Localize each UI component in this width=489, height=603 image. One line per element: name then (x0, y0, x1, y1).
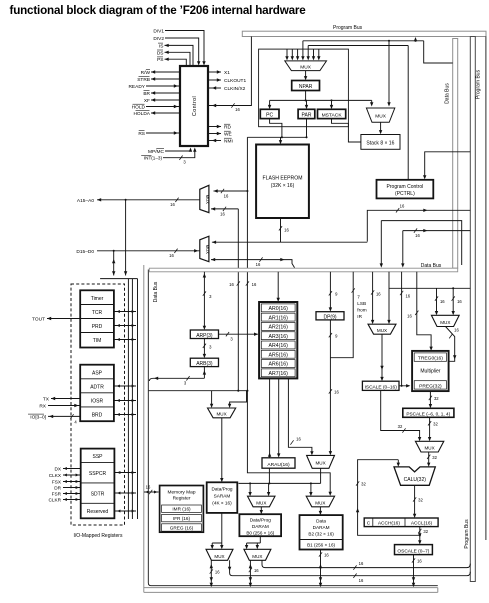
svg-text:ARP(3): ARP(3) (196, 333, 213, 339)
svg-text:R/W: R/W (141, 70, 151, 76)
svg-text:PC: PC (266, 113, 273, 119)
svg-text:XF: XF (144, 98, 150, 104)
svg-text:TREG0(16): TREG0(16) (418, 356, 443, 362)
wire ARP to ARB (3) (203, 339, 205, 356)
svg-text:GREG (16): GREG (16) (170, 526, 194, 531)
svg-text:TIM: TIM (93, 338, 102, 344)
wire program address vertical V2 (247, 191, 330, 493)
svg-text:I/O-Mapped Registers: I/O-Mapped Registers (74, 533, 123, 539)
svg-text:AR7(16): AR7(16) (269, 371, 289, 377)
svg-text:DIV2: DIV2 (153, 36, 164, 42)
mux DARAM B2 mux (306, 496, 334, 507)
svg-text:PREG(32): PREG(32) (419, 383, 442, 389)
pin FSR (63, 493, 81, 495)
svg-text:16: 16 (324, 553, 329, 558)
svg-text:MUX: MUX (216, 411, 226, 416)
wire mux1 inputs from frame (287, 49, 319, 57)
svg-text:16: 16 (146, 484, 151, 489)
svg-text:16: 16 (215, 570, 220, 575)
block ISCALE (0-16) (362, 381, 399, 390)
wire program to data transfer (16) (403, 231, 471, 265)
wire data bus to TREG mux right (388, 272, 390, 321)
register ARP(3) (190, 330, 218, 339)
svg-text:Data/Prog: Data/Prog (211, 487, 232, 492)
pin IS (output) (165, 45, 194, 66)
pin HOLDA (151, 112, 180, 114)
wire data bus to TREG0 (16) (417, 272, 431, 348)
svg-text:16: 16 (359, 561, 364, 566)
pin INT(1-3) (163, 150, 195, 158)
wire ISCALE to CALU mux (32) (381, 390, 420, 438)
svg-text:SSP: SSP (92, 454, 103, 460)
wire data bus to AR file (277, 272, 279, 299)
svg-text:SDTR: SDTR (91, 491, 105, 497)
mux data bus mux (XMIF) (200, 236, 209, 262)
wire Memory Map Register bus (16) (144, 491, 159, 493)
svg-text:CALU(32): CALU(32) (404, 477, 427, 483)
svg-text:AR3(16): AR3(16) (269, 334, 289, 340)
pin READY (146, 85, 180, 87)
memory FLASH EEPROM (256, 145, 309, 219)
pin RD (208, 126, 221, 128)
wire data mux to data bus (211, 260, 295, 268)
alu CALU(32) (394, 467, 435, 485)
bus: Program Bus right vertical bar (470, 37, 475, 582)
svg-text:16: 16 (405, 294, 410, 299)
svg-text:Program Bus: Program Bus (333, 25, 363, 31)
wire MUX2 to stack (380, 122, 382, 131)
wire ARAU output distribution (239, 468, 321, 493)
wire right mux to data bus (16) (249, 560, 251, 586)
register PAR (298, 109, 315, 118)
wire SARAM to output mux (212, 513, 222, 547)
svg-text:32: 32 (433, 422, 438, 427)
svg-text:AR1(16): AR1(16) (269, 315, 289, 321)
pin DX (63, 468, 81, 470)
svg-text:SARAM: SARAM (214, 494, 231, 499)
svg-text:CLKR: CLKR (48, 498, 61, 503)
svg-text:16: 16 (407, 314, 412, 319)
register file AR0-AR7 (259, 302, 297, 378)
wire data bus to DP (9) (329, 272, 331, 309)
svg-text:16: 16 (169, 253, 174, 258)
block SSP registers (81, 449, 115, 519)
svg-text:X1: X1 (224, 70, 230, 76)
svg-text:Memory Map: Memory Map (168, 490, 196, 496)
svg-text:32: 32 (361, 482, 366, 487)
bus: Data Bus horizontal bar (149, 268, 457, 272)
bus: Program Bus horizontal bar (242, 31, 486, 36)
svg-text:PS: PS (157, 57, 163, 63)
wire PAR output to address lines (247, 119, 306, 142)
pin CLKR (63, 499, 81, 501)
svg-text:32: 32 (423, 529, 428, 534)
wire PSCALE to CALU mux (32) (429, 417, 431, 438)
svg-text:16: 16 (224, 193, 229, 198)
wire program bus to PCTRL (425, 152, 471, 177)
svg-text:CLKX: CLKX (49, 473, 62, 478)
svg-text:Data Bus: Data Bus (153, 281, 159, 302)
svg-text:16: 16 (415, 233, 420, 238)
svg-text:MUX: MUX (375, 113, 386, 119)
svg-text:MUX: MUX (256, 500, 266, 505)
frame datapath outer (gray) (144, 265, 438, 592)
svg-text:functional block diagram of th: functional block diagram of the ’F206 in… (10, 4, 307, 17)
wire AR to memory address mux (16) (288, 378, 312, 452)
svg-text:32: 32 (398, 424, 403, 429)
svg-text:Data Bus: Data Bus (421, 263, 442, 269)
svg-text:CLKOUT1: CLKOUT1 (224, 78, 246, 84)
wire address drop to peripherals (125, 200, 127, 276)
block Memory Map Register (160, 486, 204, 533)
wire B0 to output mux (247, 536, 261, 546)
svg-text:RD: RD (224, 125, 231, 131)
wire FLASH data out (280, 218, 282, 242)
wire 7 LSB from IR (330, 272, 353, 358)
wire data bus drop to peripherals (113, 251, 115, 276)
block OSCALE (0-7) (395, 545, 433, 555)
svg-text:FSX: FSX (52, 480, 62, 485)
svg-text:DARAM: DARAM (252, 524, 269, 529)
svg-text:Register: Register (173, 496, 191, 502)
svg-text:Reserved: Reserved (87, 509, 109, 515)
wire PC output (270, 119, 282, 138)
svg-text:16: 16 (359, 578, 364, 583)
svg-text:DS: DS (157, 50, 164, 56)
svg-text:DIV1: DIV1 (153, 29, 164, 35)
svg-text:ACCL(16): ACCL(16) (411, 521, 433, 527)
svg-text:IFR (16): IFR (16) (173, 516, 191, 521)
svg-text:16: 16 (229, 282, 234, 287)
wire address mux output (320, 468, 322, 483)
wire bottom program bus link A (16) (262, 560, 470, 567)
svg-text:B2 (32 × 16): B2 (32 × 16) (308, 531, 334, 536)
svg-text:16: 16 (252, 282, 257, 287)
svg-text:RS: RS (138, 131, 145, 137)
mux MUX2 (stack input mux) (366, 108, 394, 122)
svg-text:32: 32 (418, 498, 423, 503)
svg-text:IOSR: IOSR (91, 398, 104, 404)
svg-text:16: 16 (454, 328, 459, 333)
svg-text:MP/MC: MP/MC (148, 149, 165, 155)
svg-text:D15–D0: D15–D0 (76, 249, 94, 255)
pin MP/MC (165, 150, 191, 151)
svg-text:Stack 8 × 16: Stack 8 × 16 (366, 141, 394, 147)
bus: Data Bus right vertical bar (453, 39, 458, 269)
svg-text:Program Bus: Program Bus (475, 69, 481, 99)
mux MUX1 (program address mux) (285, 61, 327, 71)
wire data bus to TREG mux left (16) (372, 272, 374, 321)
wire TREG mux output (16) (446, 327, 455, 362)
svg-text:MUX: MUX (214, 554, 224, 559)
svg-text:16: 16 (440, 299, 445, 304)
svg-text:ARAU(16): ARAU(16) (267, 462, 290, 468)
outer frame right edge (485, 37, 487, 541)
svg-text:IS: IS (159, 43, 164, 49)
wire ACC feedback to CALU (32) (358, 460, 420, 536)
svg-text:16: 16 (235, 107, 240, 112)
pin DS (output) (165, 52, 191, 66)
svg-text:AR4(16): AR4(16) (269, 343, 289, 349)
wire external bus to datapath vertical V1 (237, 209, 239, 391)
wire CALU to ACC (32) (414, 485, 416, 515)
block ASP registers (80, 365, 114, 422)
svg-text:NMI: NMI (224, 139, 233, 145)
svg-text:Program Bus: Program Bus (464, 519, 470, 549)
mux ARAU input mux (208, 408, 236, 418)
svg-text:LSB: LSB (357, 301, 366, 306)
pin TX (51, 398, 80, 400)
pin DIV2 (165, 38, 199, 62)
svg-text:MUX: MUX (315, 500, 325, 505)
svg-text:AR2(16): AR2(16) (269, 325, 289, 331)
register file Stack 8x16 (361, 135, 400, 150)
svg-text:FSR: FSR (52, 492, 62, 497)
wire mux to B2 (319, 507, 321, 513)
svg-text:16: 16 (417, 559, 422, 564)
svg-text:PRD: PRD (92, 324, 103, 330)
control block (180, 66, 208, 146)
svg-text:Program Control: Program Control (387, 184, 424, 190)
block Program Control (PCTRL) (377, 180, 434, 199)
svg-text:32: 32 (432, 455, 437, 460)
memory Data/Prog DARAM B0 (239, 514, 281, 536)
block Timer registers (80, 290, 114, 347)
frame around program counter section (259, 49, 349, 127)
svg-text:16: 16 (170, 202, 175, 207)
register DP(9) (316, 312, 344, 320)
wire L1 program bus feed (303, 39, 424, 104)
svg-text:16: 16 (400, 204, 405, 209)
svg-text:FLASH EEPROM: FLASH EEPROM (263, 176, 303, 182)
pin DR (63, 487, 81, 489)
frame datapath inner (black) (148, 270, 438, 586)
wire ACC to OSCALE (32) (419, 527, 421, 542)
wire mux to B0 (260, 507, 262, 512)
pin STRB (151, 78, 180, 80)
svg-text:MUX: MUX (205, 245, 210, 255)
register NPAR (292, 81, 320, 91)
wire program bus to data bus drop (424, 41, 453, 63)
wire ASP register taps (114, 385, 136, 387)
svg-text:AR6(16): AR6(16) (269, 362, 289, 368)
svg-text:B0 (256 × 16): B0 (256 × 16) (246, 530, 274, 535)
block PSCALE (403, 408, 454, 417)
svg-text:IMR (16): IMR (16) (172, 507, 191, 512)
svg-text:PAR: PAR (302, 113, 312, 119)
svg-text:(32K × 16): (32K × 16) (271, 183, 295, 189)
mux memory output mux left (206, 549, 233, 560)
wire PREG to PSCALE (32) (429, 391, 431, 405)
svg-text:SSPCR: SSPCR (89, 471, 107, 477)
wire data address to address mux (211, 208, 238, 210)
svg-text:MUX: MUX (205, 195, 210, 205)
wire address line A15-A0 (97, 199, 200, 201)
wire ARB writeback (149, 367, 204, 381)
pin DIV1 (165, 31, 204, 62)
svg-text:Timer: Timer (91, 296, 104, 302)
mux DARAM B0 mux (248, 496, 276, 507)
pin RS (146, 132, 180, 134)
svg-text:C: C (367, 521, 371, 527)
svg-text:16: 16 (220, 211, 225, 216)
svg-text:IO[3–0]: IO[3–0] (30, 414, 46, 420)
svg-text:MSTACK: MSTACK (322, 113, 343, 119)
svg-text:MUX: MUX (315, 460, 325, 465)
pin R/W (151, 71, 180, 73)
mux CALU input mux (415, 441, 443, 452)
svg-text:16: 16 (334, 390, 339, 395)
wire ARAU mux to SARAM (221, 418, 223, 480)
register MSTACK (318, 109, 346, 118)
wire h1 program feed multiplier (389, 288, 470, 312)
svg-text:MUX: MUX (252, 554, 262, 559)
wire MSTACK to Stack (332, 119, 361, 142)
svg-text:MUX: MUX (377, 328, 387, 333)
wire PAR to address mux (214, 137, 248, 191)
wire OSCALE to data bus (16) (413, 555, 415, 587)
wire ARP select to AR file (3) (219, 333, 258, 335)
pin FSX (63, 481, 81, 483)
svg-text:BRD: BRD (92, 412, 103, 418)
svg-text:16: 16 (296, 437, 301, 442)
wire bottom program bus link B (16) (230, 560, 471, 575)
svg-text:MUX: MUX (440, 320, 450, 325)
svg-text:DX: DX (54, 467, 61, 472)
mux address output mux (XMIF) (200, 185, 209, 212)
svg-text:16: 16 (376, 292, 381, 297)
svg-text:WE: WE (224, 132, 232, 138)
svg-text:Control: Control (192, 96, 198, 116)
pin TOUT (47, 318, 80, 320)
wire mux to CALU (32) (428, 452, 430, 464)
svg-text:from: from (357, 308, 366, 313)
svg-text:IR: IR (357, 314, 362, 319)
svg-text:MUX: MUX (300, 64, 311, 70)
svg-text:Data: Data (316, 518, 326, 523)
svg-text:16: 16 (284, 228, 289, 233)
mux data memory address mux (307, 455, 335, 468)
svg-text:TOUT: TOUT (32, 317, 45, 323)
pin BR (151, 92, 180, 94)
wire flash/program data to data mux (212, 241, 367, 243)
wire control to program bus (16) (208, 37, 251, 106)
wire AR to ARAU (278, 378, 280, 454)
svg-text:TCR: TCR (92, 310, 103, 316)
block ARAU(16) (262, 458, 295, 468)
svg-text:HOLD: HOLD (132, 105, 146, 111)
svg-text:B1 (256 × 16): B1 (256 × 16) (307, 542, 335, 547)
pin PS (output) (165, 59, 187, 66)
wire data bus feed drop 1 (380, 221, 382, 265)
memory Data/Prog SARAM (207, 482, 238, 513)
frame I/O-mapped registers (dashed) (71, 284, 125, 525)
pin CLKOUT1 (208, 79, 221, 81)
svg-text:PSCALE (–6, 0, 1, 4): PSCALE (–6, 0, 1, 4) (406, 412, 450, 417)
wire timer register taps (114, 311, 136, 313)
wire data bus to ARP (3) (203, 272, 205, 327)
svg-text:CLKIN/X2: CLKIN/X2 (224, 86, 246, 92)
wire PCTRL/flash to program bus (16) (367, 210, 470, 241)
wire AR to ARAU writeback (269, 378, 271, 457)
svg-text:ISCALE (0–16): ISCALE (0–16) (365, 384, 398, 390)
wire B1/B2 to data bus (16) (320, 550, 322, 587)
wire data-program transfer (upper) (381, 221, 461, 265)
svg-text:HOLDA: HOLDA (133, 111, 150, 117)
pin X1 (208, 71, 221, 73)
svg-text:Data Bus: Data Bus (445, 83, 451, 104)
pin XF (151, 99, 180, 101)
pin CLKIN/X2 (208, 87, 221, 89)
wire SSP register taps (114, 472, 136, 474)
wire mux to ISCALE (381, 334, 383, 378)
svg-text:(4K × 16): (4K × 16) (212, 501, 232, 506)
wire DP+7LSB data address (16) (329, 320, 331, 453)
pin RX (48, 405, 80, 407)
mux TREG source mux (431, 315, 459, 326)
svg-text:ACCH(16): ACCH(16) (378, 521, 401, 527)
svg-text:Multiplier: Multiplier (420, 369, 440, 375)
svg-text:AR5(16): AR5(16) (269, 352, 289, 358)
svg-text:16: 16 (457, 299, 462, 304)
svg-text:STRB: STRB (137, 77, 150, 83)
register ACC (C/ACCH/ACCL) (364, 518, 438, 527)
svg-text:(PCTRL): (PCTRL) (395, 191, 415, 197)
svg-text:32: 32 (434, 396, 439, 401)
svg-text:MUX: MUX (424, 446, 434, 451)
pin NMI (208, 140, 221, 142)
svg-text:NPAR: NPAR (299, 84, 313, 90)
svg-text:Data/Prog: Data/Prog (250, 517, 271, 522)
svg-text:OSCALE (0–7): OSCALE (0–7) (397, 548, 429, 554)
wire MUX1 to NPAR (305, 71, 307, 78)
register ARB(3) (190, 358, 218, 366)
wire L2 PCTRL feed (308, 46, 408, 180)
svg-text:DP(9): DP(9) (323, 314, 336, 320)
bus: peripheral register bus (100, 279, 137, 519)
svg-text:ARB(3): ARB(3) (196, 361, 213, 367)
svg-text:16: 16 (256, 262, 261, 267)
svg-text:TX: TX (43, 397, 50, 403)
svg-text:BR: BR (143, 91, 150, 97)
pin WE (208, 133, 221, 135)
pin IO(3-0) (48, 415, 80, 417)
wire data bus to PREG (16) (399, 272, 409, 386)
wire left mux to data bus (16) (210, 560, 212, 586)
svg-text:ASP: ASP (92, 370, 103, 376)
svg-text:16: 16 (254, 568, 259, 573)
svg-text:DARAM: DARAM (313, 525, 330, 530)
svg-text:RX: RX (39, 404, 46, 410)
wire NPAR output distribution (270, 91, 372, 107)
svg-text:READY: READY (128, 84, 145, 90)
svg-text:ADTR: ADTR (90, 384, 104, 390)
register PC (260, 109, 279, 118)
pin HOLD (146, 106, 180, 108)
wire frame to ARAU mux (149, 391, 247, 405)
block TREG0/Multiplier/PREG (412, 351, 449, 391)
wire data line D15-D0 (97, 250, 200, 252)
svg-text:AR0(16): AR0(16) (269, 306, 289, 312)
svg-text:A15–A0: A15–A0 (77, 198, 94, 204)
mux memory output mux right (244, 549, 271, 560)
memory Data DARAM B2/B1 (300, 515, 343, 549)
svg-text:DR: DR (54, 486, 61, 491)
svg-text:7: 7 (357, 295, 360, 300)
svg-text:INT(1–3): INT(1–3) (144, 156, 163, 161)
mux multiplier input mux (368, 324, 396, 334)
pin CLKX (63, 474, 81, 476)
